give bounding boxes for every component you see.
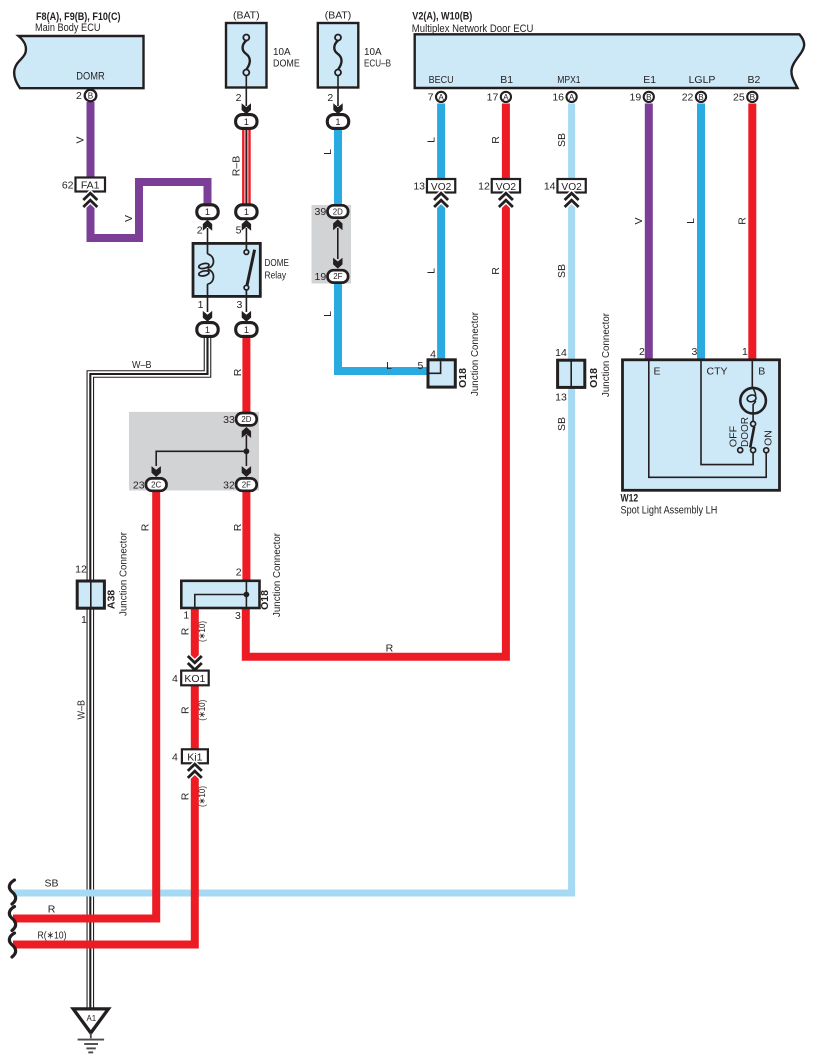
connector 23 2C (gray panel 2) bbox=[133, 478, 167, 491]
svg-text:L: L bbox=[322, 311, 334, 317]
svg-text:O18: O18 bbox=[457, 368, 469, 388]
svg-text:R: R bbox=[232, 523, 244, 531]
svg-text:SB: SB bbox=[556, 417, 568, 431]
svg-text:39: 39 bbox=[315, 206, 327, 218]
svg-text:V: V bbox=[633, 217, 645, 224]
svg-text:L: L bbox=[425, 268, 437, 274]
svg-text:33: 33 bbox=[223, 414, 235, 426]
svg-text:13: 13 bbox=[555, 392, 567, 404]
svg-text:32: 32 bbox=[223, 480, 235, 492]
wire L (BECU to junction connector O18 pin 4) bbox=[425, 104, 441, 361]
wire R (connector 2C to bottom left) bbox=[13, 490, 156, 919]
wire V (E1 to spot light pin 2) bbox=[633, 104, 649, 361]
svg-text:(BAT): (BAT) bbox=[325, 9, 352, 21]
connector 1 (relay pin 5) bbox=[236, 205, 257, 219]
svg-text:2D: 2D bbox=[333, 207, 343, 216]
svg-text:R: R bbox=[232, 368, 244, 376]
svg-text:Junction Connector: Junction Connector bbox=[271, 533, 283, 617]
spot light switch blade and contacts bbox=[728, 417, 775, 453]
svg-text:V2(A), W10(B): V2(A), W10(B) bbox=[412, 11, 472, 23]
svg-text:14: 14 bbox=[544, 181, 556, 193]
svg-text:W–B: W–B bbox=[132, 359, 152, 371]
svg-text:A: A bbox=[569, 93, 575, 102]
svg-text:DOME: DOME bbox=[273, 58, 300, 70]
junction connector O18 (red wires, bottom) bbox=[181, 533, 282, 622]
svg-text:2: 2 bbox=[236, 567, 242, 579]
relay pin 1 arrow bbox=[198, 296, 213, 321]
svg-text:Spot Light Assembly LH: Spot Light Assembly LH bbox=[621, 505, 718, 517]
svg-text:O18: O18 bbox=[588, 368, 600, 388]
svg-text:B: B bbox=[698, 93, 704, 102]
relay pin 5 arrow bbox=[236, 220, 251, 244]
svg-text:17: 17 bbox=[487, 92, 499, 104]
svg-text:B: B bbox=[758, 366, 765, 378]
wire R (*10) (Kj1 to bottom left) bbox=[13, 765, 207, 945]
svg-text:7: 7 bbox=[428, 92, 434, 104]
relay pin 2 arrow bbox=[197, 220, 212, 244]
svg-text:L: L bbox=[322, 149, 334, 155]
svg-text:R: R bbox=[180, 706, 192, 714]
svg-text:13: 13 bbox=[413, 181, 425, 193]
svg-text:R: R bbox=[490, 136, 502, 144]
wire R (connector 2F to junction connector O18 pin 2) bbox=[232, 490, 246, 582]
svg-text:1: 1 bbox=[244, 325, 249, 335]
svg-text:12: 12 bbox=[478, 181, 490, 193]
svg-text:W12: W12 bbox=[621, 493, 639, 505]
connector 1 (relay pin 3) bbox=[236, 323, 257, 337]
svg-text:25: 25 bbox=[733, 92, 745, 104]
ECU V2(A),W10(B) Multiplex Network Door ECU bbox=[412, 11, 804, 89]
svg-text:(BAT): (BAT) bbox=[233, 9, 260, 21]
svg-text:R: R bbox=[48, 904, 56, 916]
svg-text:Junction Connector: Junction Connector bbox=[469, 312, 481, 396]
svg-text:(∗10): (∗10) bbox=[197, 621, 207, 642]
svg-text:4: 4 bbox=[172, 673, 178, 685]
svg-text:R: R bbox=[140, 523, 152, 531]
svg-text:DOMR: DOMR bbox=[76, 70, 104, 82]
svg-text:5: 5 bbox=[236, 224, 242, 236]
svg-text:E: E bbox=[654, 366, 661, 378]
svg-text:L: L bbox=[425, 137, 437, 143]
svg-text:R: R bbox=[737, 217, 749, 225]
svg-text:SB: SB bbox=[556, 264, 568, 278]
svg-text:14: 14 bbox=[555, 347, 567, 359]
svg-text:A1: A1 bbox=[86, 1014, 96, 1023]
svg-text:BECU: BECU bbox=[429, 74, 454, 86]
svg-text:12: 12 bbox=[75, 564, 87, 576]
svg-text:3: 3 bbox=[235, 610, 241, 622]
svg-text:E1: E1 bbox=[643, 74, 656, 86]
svg-text:3: 3 bbox=[691, 346, 697, 358]
svg-text:1: 1 bbox=[198, 299, 204, 311]
relay pin 3 arrow bbox=[237, 296, 252, 321]
pin 16 (A) MPX1 bbox=[552, 92, 576, 104]
svg-text:Junction Connector: Junction Connector bbox=[600, 313, 612, 397]
svg-text:R: R bbox=[490, 267, 502, 275]
pin 17 (A) B1 bbox=[487, 92, 511, 104]
wire V (FA1 to relay pin 2) bbox=[91, 182, 208, 238]
pin 2 of DOME fuse with arrow bbox=[236, 88, 251, 114]
connector 32 2F (gray panel 2) bbox=[223, 478, 257, 491]
svg-text:B1: B1 bbox=[500, 74, 513, 86]
connector 1 (DOME fuse output) bbox=[236, 115, 257, 129]
svg-text:KO1: KO1 bbox=[184, 673, 205, 685]
svg-text:Junction Connector: Junction Connector bbox=[117, 532, 129, 616]
svg-text:B: B bbox=[646, 93, 652, 102]
svg-text:R–B: R–B bbox=[231, 156, 243, 176]
svg-text:2: 2 bbox=[76, 90, 82, 102]
wire V (DOMR pin to fuse block FA1) bbox=[75, 102, 91, 192]
svg-text:16: 16 bbox=[552, 92, 564, 104]
svg-text:R(∗10): R(∗10) bbox=[38, 930, 67, 942]
svg-text:10A: 10A bbox=[364, 46, 382, 58]
spot light assembly W12 bbox=[621, 346, 780, 517]
svg-text:1: 1 bbox=[81, 614, 87, 626]
svg-text:3: 3 bbox=[237, 299, 243, 311]
svg-text:2: 2 bbox=[197, 224, 203, 236]
svg-text:L: L bbox=[685, 218, 697, 224]
svg-text:MPX1: MPX1 bbox=[557, 74, 581, 86]
fuse block connector FA1 bbox=[62, 178, 105, 208]
connector 39 2D (gray panel) bbox=[315, 205, 349, 218]
connector 4 Kj1 bbox=[172, 749, 208, 778]
connector 1 (relay pin 2) bbox=[197, 205, 218, 219]
junction connector O18 (SB wire) bbox=[555, 313, 612, 404]
connector panel (gray) 2D/2F bbox=[312, 205, 352, 284]
svg-text:LGLP: LGLP bbox=[689, 74, 716, 86]
svg-text:19: 19 bbox=[630, 92, 642, 104]
connector 1 (ECU-B fuse output) bbox=[327, 115, 348, 129]
connector 4 KO1 bbox=[172, 656, 209, 685]
svg-text:1: 1 bbox=[183, 610, 189, 622]
svg-text:2D: 2D bbox=[241, 415, 251, 424]
svg-text:B2: B2 bbox=[747, 74, 760, 86]
svg-text:2: 2 bbox=[639, 346, 645, 358]
svg-text:Multiplex Network Door ECU: Multiplex Network Door ECU bbox=[412, 23, 534, 35]
svg-text:1: 1 bbox=[335, 117, 340, 127]
svg-text:10A: 10A bbox=[273, 46, 291, 58]
svg-text:R: R bbox=[386, 642, 394, 654]
pin 2 of ECU-B fuse with arrow bbox=[327, 88, 342, 114]
svg-text:ON: ON bbox=[763, 430, 775, 446]
svg-text:5: 5 bbox=[417, 360, 423, 372]
wire L (LGLP to spot light pin 3) bbox=[685, 104, 701, 361]
connector 33 2D (gray panel 2) bbox=[223, 413, 257, 426]
svg-text:DOOR: DOOR bbox=[739, 417, 751, 447]
wire R (B1 to junction connector O18 pin 3) bbox=[246, 104, 506, 657]
pin 7 (A) BECU bbox=[428, 92, 447, 104]
svg-text:W–B: W–B bbox=[75, 700, 87, 720]
svg-text:SB: SB bbox=[556, 133, 568, 147]
svg-text:R: R bbox=[180, 792, 192, 800]
svg-text:19: 19 bbox=[315, 271, 327, 283]
fuse 10A DOME bbox=[226, 9, 300, 87]
svg-text:O18: O18 bbox=[259, 590, 271, 610]
svg-text:2: 2 bbox=[236, 92, 242, 104]
svg-text:1: 1 bbox=[244, 207, 249, 217]
svg-text:A: A bbox=[438, 93, 444, 102]
svg-text:OFF: OFF bbox=[728, 426, 740, 448]
pin 25 (B) B2 bbox=[733, 92, 757, 104]
svg-text:ECU–B: ECU–B bbox=[364, 58, 391, 70]
wire R-B (DOME fuse to relay pin 5) bbox=[231, 129, 247, 205]
svg-text:(∗10): (∗10) bbox=[197, 700, 207, 721]
svg-text:62: 62 bbox=[62, 180, 74, 192]
svg-text:V: V bbox=[75, 136, 87, 143]
connector 13 VO2 bbox=[413, 179, 455, 207]
relay coil bbox=[198, 244, 213, 296]
svg-text:22: 22 bbox=[682, 92, 694, 104]
svg-text:V: V bbox=[123, 215, 135, 222]
svg-text:B: B bbox=[88, 92, 94, 101]
connector 12 VO2 bbox=[478, 179, 520, 207]
svg-text:Main Body ECU: Main Body ECU bbox=[35, 22, 101, 34]
svg-text:2: 2 bbox=[327, 92, 333, 104]
junction connector A38 (W-B wire) bbox=[75, 532, 129, 626]
pin 19 (B) E1 bbox=[630, 92, 654, 104]
fuse 10A ECU-B bbox=[318, 9, 391, 87]
break symbol (SB wire) bbox=[9, 880, 15, 904]
svg-text:A38: A38 bbox=[106, 590, 118, 609]
wire W-B (relay pin1 to ground A1) bbox=[75, 334, 207, 1009]
wire R (relay pin 3 to connector 2D) bbox=[232, 335, 246, 413]
connector 19 2F (gray panel) bbox=[315, 270, 349, 283]
ECU F8(A),F9(B),F10(C) Main Body ECU bbox=[14, 11, 143, 88]
connector 1 (relay pin 1) bbox=[197, 323, 218, 337]
spot light internal wiring E and ON contact bbox=[649, 360, 769, 478]
svg-text:A: A bbox=[503, 93, 509, 102]
wire R (B2 to spot light pin 1) bbox=[737, 104, 753, 361]
svg-text:L: L bbox=[386, 360, 392, 372]
wire R (*10) (O18 pin 1 to KO1) bbox=[180, 606, 207, 672]
svg-text:2F: 2F bbox=[333, 272, 342, 281]
wire R (*10) (KO1 to Kj1) bbox=[180, 685, 207, 751]
pin 22 (B) LGLP bbox=[682, 92, 706, 104]
svg-text:2F: 2F bbox=[242, 480, 251, 489]
svg-text:1: 1 bbox=[742, 346, 748, 358]
svg-text:(∗10): (∗10) bbox=[197, 786, 207, 807]
arrow pair between 2D and 2F bbox=[333, 219, 342, 268]
spot light internal wiring CTY and DOOR contact bbox=[701, 360, 756, 465]
junction connector O18 (L wires) bbox=[417, 312, 480, 396]
svg-text:CTY: CTY bbox=[707, 366, 728, 378]
svg-text:1: 1 bbox=[205, 207, 210, 217]
pin 2 (B) of Main Body ECU bbox=[76, 90, 96, 102]
svg-text:R: R bbox=[180, 627, 192, 635]
break symbol (R *10 wire) bbox=[9, 933, 15, 957]
svg-text:2C: 2C bbox=[151, 480, 161, 489]
svg-text:4: 4 bbox=[172, 752, 178, 764]
svg-text:1: 1 bbox=[205, 325, 210, 335]
wire L (ECU-B fuse to junction connector O18) bbox=[322, 129, 429, 372]
svg-text:DOME: DOME bbox=[265, 257, 289, 269]
ground A1 bbox=[73, 1009, 108, 1053]
connector panel (gray) 2D/2C/2F bbox=[129, 412, 259, 491]
spot light bulb bbox=[740, 360, 766, 422]
svg-text:SB: SB bbox=[44, 877, 58, 889]
wire SB (MPX1 to bottom left) bbox=[13, 104, 572, 894]
svg-text:B: B bbox=[750, 93, 756, 102]
svg-text:1: 1 bbox=[244, 117, 249, 127]
svg-text:Relay: Relay bbox=[265, 269, 287, 281]
arrow up to 2D, junction dot, branch lines bbox=[152, 427, 252, 477]
svg-text:23: 23 bbox=[133, 480, 145, 492]
relay DOME Relay bbox=[193, 243, 289, 296]
relay switch bbox=[244, 244, 255, 296]
break symbol (R wire) bbox=[9, 907, 15, 931]
connector 14 VO2 bbox=[544, 179, 586, 207]
